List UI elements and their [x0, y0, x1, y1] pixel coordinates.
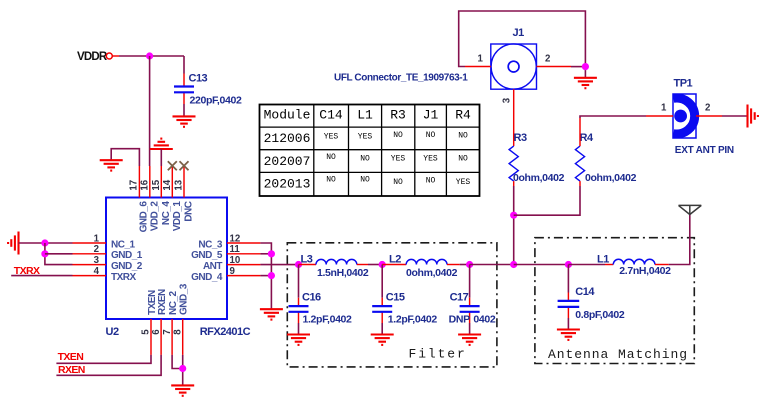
ground below pin8 — [171, 385, 194, 395]
node pin8 junction — [179, 365, 186, 372]
svg-text:J1: J1 — [423, 108, 439, 123]
wire C17 to ground — [469, 323, 471, 334]
ground left of pin1 — [8, 232, 18, 255]
pin 9 GND_4 — [191, 266, 260, 283]
wire VDDR to pin16 — [149, 56, 151, 166]
svg-text:C14: C14 — [319, 108, 343, 123]
pin 13 DNC — [174, 166, 195, 222]
svg-text:C13: C13 — [189, 73, 208, 85]
svg-text:202007: 202007 — [264, 154, 311, 169]
wire pin8 to ground — [182, 355, 184, 385]
svg-text:NC_4: NC_4 — [161, 201, 172, 226]
svg-text:NO: NO — [426, 177, 436, 186]
wire ground to pin1 — [19, 242, 73, 244]
no-connect X pin 13 — [180, 161, 189, 170]
wire branch down to pin3 — [45, 243, 73, 265]
svg-text:202013: 202013 — [264, 176, 311, 191]
wire R4 to TP1 — [580, 116, 646, 118]
svg-text:R4: R4 — [455, 108, 471, 123]
svg-text:GND_3: GND_3 — [179, 283, 190, 315]
pin 6 RXEN — [151, 289, 168, 355]
wire pin7 to pin8 net — [172, 355, 183, 369]
svg-text:NO: NO — [360, 154, 370, 163]
svg-text:TP1: TP1 — [674, 78, 693, 90]
svg-text:VDDR: VDDR — [77, 51, 108, 63]
svg-text:NC_1: NC_1 — [111, 239, 136, 250]
svg-text:2.7nH,0402: 2.7nH,0402 — [619, 265, 671, 277]
svg-text:NO: NO — [326, 153, 336, 162]
pin 2 of TP1 — [696, 115, 722, 117]
capacitor C14 — [558, 265, 625, 322]
svg-text:C14: C14 — [575, 286, 595, 298]
svg-text:220pF,0402: 220pF,0402 — [190, 95, 242, 107]
svg-text:VDD_1: VDD_1 — [172, 201, 183, 232]
svg-text:0402: 0402 — [473, 314, 495, 326]
connector J1 — [491, 27, 537, 89]
inductor L1 — [597, 254, 671, 277]
svg-text:L2: L2 — [389, 254, 401, 266]
svg-text:3: 3 — [94, 255, 100, 266]
antenna matching box — [535, 238, 694, 364]
svg-text:GND_1: GND_1 — [111, 250, 143, 261]
wire VDDR down to C13 — [183, 56, 185, 74]
svg-text:L1: L1 — [357, 108, 373, 123]
svg-text:15: 15 — [151, 179, 162, 190]
svg-text:0ohm,0402: 0ohm,0402 — [513, 172, 565, 184]
svg-text:1.2pF,0402: 1.2pF,0402 — [303, 314, 353, 326]
svg-text:NO: NO — [393, 178, 403, 187]
inductor L3 — [299, 254, 369, 279]
wire J1 loop — [459, 11, 586, 67]
svg-text:NO: NO — [458, 132, 468, 141]
svg-text:GND_2: GND_2 — [111, 261, 143, 272]
pin R4 top — [579, 118, 581, 146]
op chip U2 RFX2401C — [106, 198, 251, 338]
svg-text:2: 2 — [545, 54, 550, 65]
resistor R3 — [509, 132, 565, 184]
svg-text:J1: J1 — [513, 27, 525, 39]
ground below C17 — [458, 335, 481, 345]
svg-text:1.2pF,0402: 1.2pF,0402 — [388, 314, 438, 326]
node C17 — [466, 261, 473, 268]
no-connect X pin 14 — [168, 161, 177, 170]
svg-text:RXEN: RXEN — [58, 364, 85, 376]
svg-text:YES: YES — [391, 154, 406, 163]
svg-text:2: 2 — [705, 103, 710, 114]
svg-text:6: 6 — [151, 329, 162, 335]
ground below C13 — [173, 116, 196, 126]
node L3 left — [295, 261, 302, 268]
wire C15 to ground — [381, 323, 383, 334]
pin 1 NC_1 — [73, 233, 136, 250]
wire R4 bottom to junction — [579, 181, 581, 186]
inductor L2 — [382, 254, 460, 279]
node pin2 branch — [41, 250, 48, 257]
wire L3 to C15 node — [368, 264, 382, 266]
wire J1 node to ground — [584, 67, 586, 78]
svg-text:YES: YES — [324, 132, 339, 141]
pin 3 GND_2 — [73, 255, 143, 272]
node rail pin11 — [268, 250, 275, 257]
svg-text:UFL Connector_TE_1909763-1: UFL Connector_TE_1909763-1 — [334, 73, 468, 84]
node R3 rail — [510, 261, 517, 268]
pin 11 GND_5 — [191, 244, 260, 261]
pin 5 TXEN — [141, 290, 158, 355]
wire TP1 to right earth — [722, 115, 748, 117]
wire VDDR horizontal — [113, 55, 120, 57]
pin 10 ANT — [203, 255, 260, 272]
pin 2 of J1 — [537, 66, 572, 68]
svg-text:L1: L1 — [597, 254, 609, 266]
wire R3 bottom — [513, 181, 515, 186]
wire C16 to ground — [298, 323, 300, 334]
wire pin2 to ground node — [571, 66, 585, 68]
node R3 R4 junction — [510, 212, 517, 219]
svg-text:14: 14 — [162, 179, 173, 190]
wire C13 to ground — [183, 104, 185, 116]
wire TXRX to pin4 — [11, 275, 72, 277]
svg-text:YES: YES — [358, 132, 373, 141]
svg-text:R4: R4 — [580, 132, 594, 144]
capacitor C17 — [449, 265, 496, 326]
ground below C15 — [371, 335, 394, 345]
node C15 — [379, 261, 386, 268]
svg-text:RXEN: RXEN — [157, 289, 168, 315]
wire C17 node to R3 node — [470, 264, 514, 266]
wire ANT to filter — [260, 264, 298, 266]
svg-text:YES: YES — [423, 154, 438, 163]
svg-text:1: 1 — [661, 103, 667, 114]
svg-text:R3: R3 — [390, 108, 406, 123]
svg-text:1: 1 — [94, 233, 100, 244]
svg-text:0ohm,0402: 0ohm,0402 — [406, 267, 458, 279]
svg-text:EXT ANT PIN: EXT ANT PIN — [675, 145, 734, 156]
svg-text:1.5nH,0402: 1.5nH,0402 — [317, 267, 369, 279]
svg-text:C17: C17 — [450, 292, 469, 304]
svg-text:R3: R3 — [514, 132, 527, 144]
pin 12 NC_3 — [198, 233, 260, 250]
svg-text:U2: U2 — [106, 326, 119, 338]
pin 8 GND_3 — [172, 283, 189, 355]
svg-text:3: 3 — [502, 97, 513, 103]
svg-text:16: 16 — [139, 179, 150, 190]
svg-text:TXEN: TXEN — [58, 351, 84, 363]
svg-text:4: 4 — [94, 266, 100, 277]
wire L2 to C17 node — [460, 264, 470, 266]
wire L1 to antenna — [669, 215, 690, 265]
svg-text:GND_4: GND_4 — [191, 272, 223, 283]
ground below C16 — [287, 335, 310, 345]
svg-text:DNP: DNP — [449, 314, 470, 326]
ground below rail — [260, 309, 283, 319]
svg-text:GND_6: GND_6 — [139, 201, 150, 233]
capacitor C16 — [289, 265, 353, 326]
svg-text:12: 12 — [230, 233, 241, 244]
svg-text:Antenna Matching: Antenna Matching — [548, 347, 688, 362]
wire pin9 to rail — [260, 275, 271, 277]
node rail pin9 — [268, 272, 275, 279]
pin 3 of J1 — [513, 89, 515, 146]
svg-text:NC_3: NC_3 — [198, 239, 223, 250]
svg-text:NO: NO — [393, 131, 403, 140]
pin 17 GND_6 — [129, 166, 150, 232]
svg-text:7: 7 — [162, 329, 173, 334]
svg-text:DNC: DNC — [184, 201, 195, 221]
svg-text:9: 9 — [230, 266, 236, 277]
capacitor C13 — [174, 73, 242, 107]
svg-text:NO: NO — [326, 176, 336, 185]
table module options — [260, 105, 480, 197]
wire pin11 to rail — [260, 253, 271, 255]
svg-text:212006: 212006 — [264, 131, 311, 146]
wire power bar to pin15 — [160, 149, 162, 166]
test point TP1 — [673, 78, 734, 157]
svg-text:RFX2401C: RFX2401C — [200, 326, 251, 338]
svg-text:Filter: Filter — [409, 347, 467, 362]
capacitor C15 — [372, 265, 437, 326]
wire pin12 to right ground rail — [260, 243, 271, 309]
ground upper-left — [100, 160, 123, 170]
pin 4 TXRX — [73, 266, 137, 283]
svg-text:8: 8 — [172, 329, 183, 335]
antenna ANT1 — [679, 205, 702, 214]
pin 1 of J1 — [465, 66, 491, 68]
node C14 — [565, 261, 572, 268]
pin 16 VDD_2 — [139, 166, 160, 231]
ground below J1 — [574, 78, 597, 88]
node VDDR junction — [146, 52, 153, 59]
svg-text:VDD_2: VDD_2 — [150, 201, 161, 232]
earth ground right — [748, 105, 758, 128]
svg-text:1: 1 — [478, 54, 484, 65]
node J1 ground junction — [582, 63, 589, 70]
svg-text:Module: Module — [264, 108, 311, 123]
pin 1 of TP1 — [646, 115, 673, 117]
svg-text:2: 2 — [94, 244, 99, 255]
pin 2 GND_1 — [73, 244, 143, 261]
wire node to L1 — [568, 264, 605, 266]
svg-text:TXRX: TXRX — [111, 272, 137, 283]
svg-text:C16: C16 — [302, 292, 321, 304]
svg-text:NO: NO — [426, 131, 436, 140]
svg-text:NO: NO — [360, 176, 370, 185]
svg-text:NO: NO — [458, 154, 468, 163]
filter box — [287, 243, 497, 367]
pin 14 VDD_1 — [162, 166, 183, 231]
svg-text:C15: C15 — [386, 292, 405, 304]
wire TXEN to pin5 — [56, 355, 151, 363]
wire pin17 to upper-left ground — [111, 149, 139, 166]
svg-text:0.8pF,0402: 0.8pF,0402 — [575, 309, 625, 321]
node pin1 branch — [41, 239, 48, 246]
svg-text:0ohm,0402: 0ohm,0402 — [585, 172, 637, 184]
wire C14 to ground — [567, 318, 569, 329]
svg-text:17: 17 — [129, 180, 140, 191]
svg-text:YES: YES — [456, 178, 471, 187]
svg-text:11: 11 — [230, 244, 241, 255]
svg-text:13: 13 — [174, 179, 185, 190]
ground below C14 — [557, 330, 580, 340]
svg-text:NC_2: NC_2 — [168, 290, 179, 315]
svg-text:GND_5: GND_5 — [191, 250, 223, 261]
svg-text:10: 10 — [230, 255, 241, 266]
svg-text:L3: L3 — [301, 254, 313, 266]
svg-text:ANT: ANT — [203, 261, 222, 272]
wire RXEN to pin6 — [56, 355, 161, 375]
pin 15 NC_4 — [151, 166, 172, 225]
wire to antenna box — [514, 264, 569, 266]
pin 7 NC_2 — [162, 290, 179, 354]
resistor R4 — [575, 132, 636, 184]
power bar above pin 15 — [150, 139, 173, 149]
power terminal VDDR — [77, 51, 112, 63]
wire branch to pin2 — [45, 253, 73, 255]
